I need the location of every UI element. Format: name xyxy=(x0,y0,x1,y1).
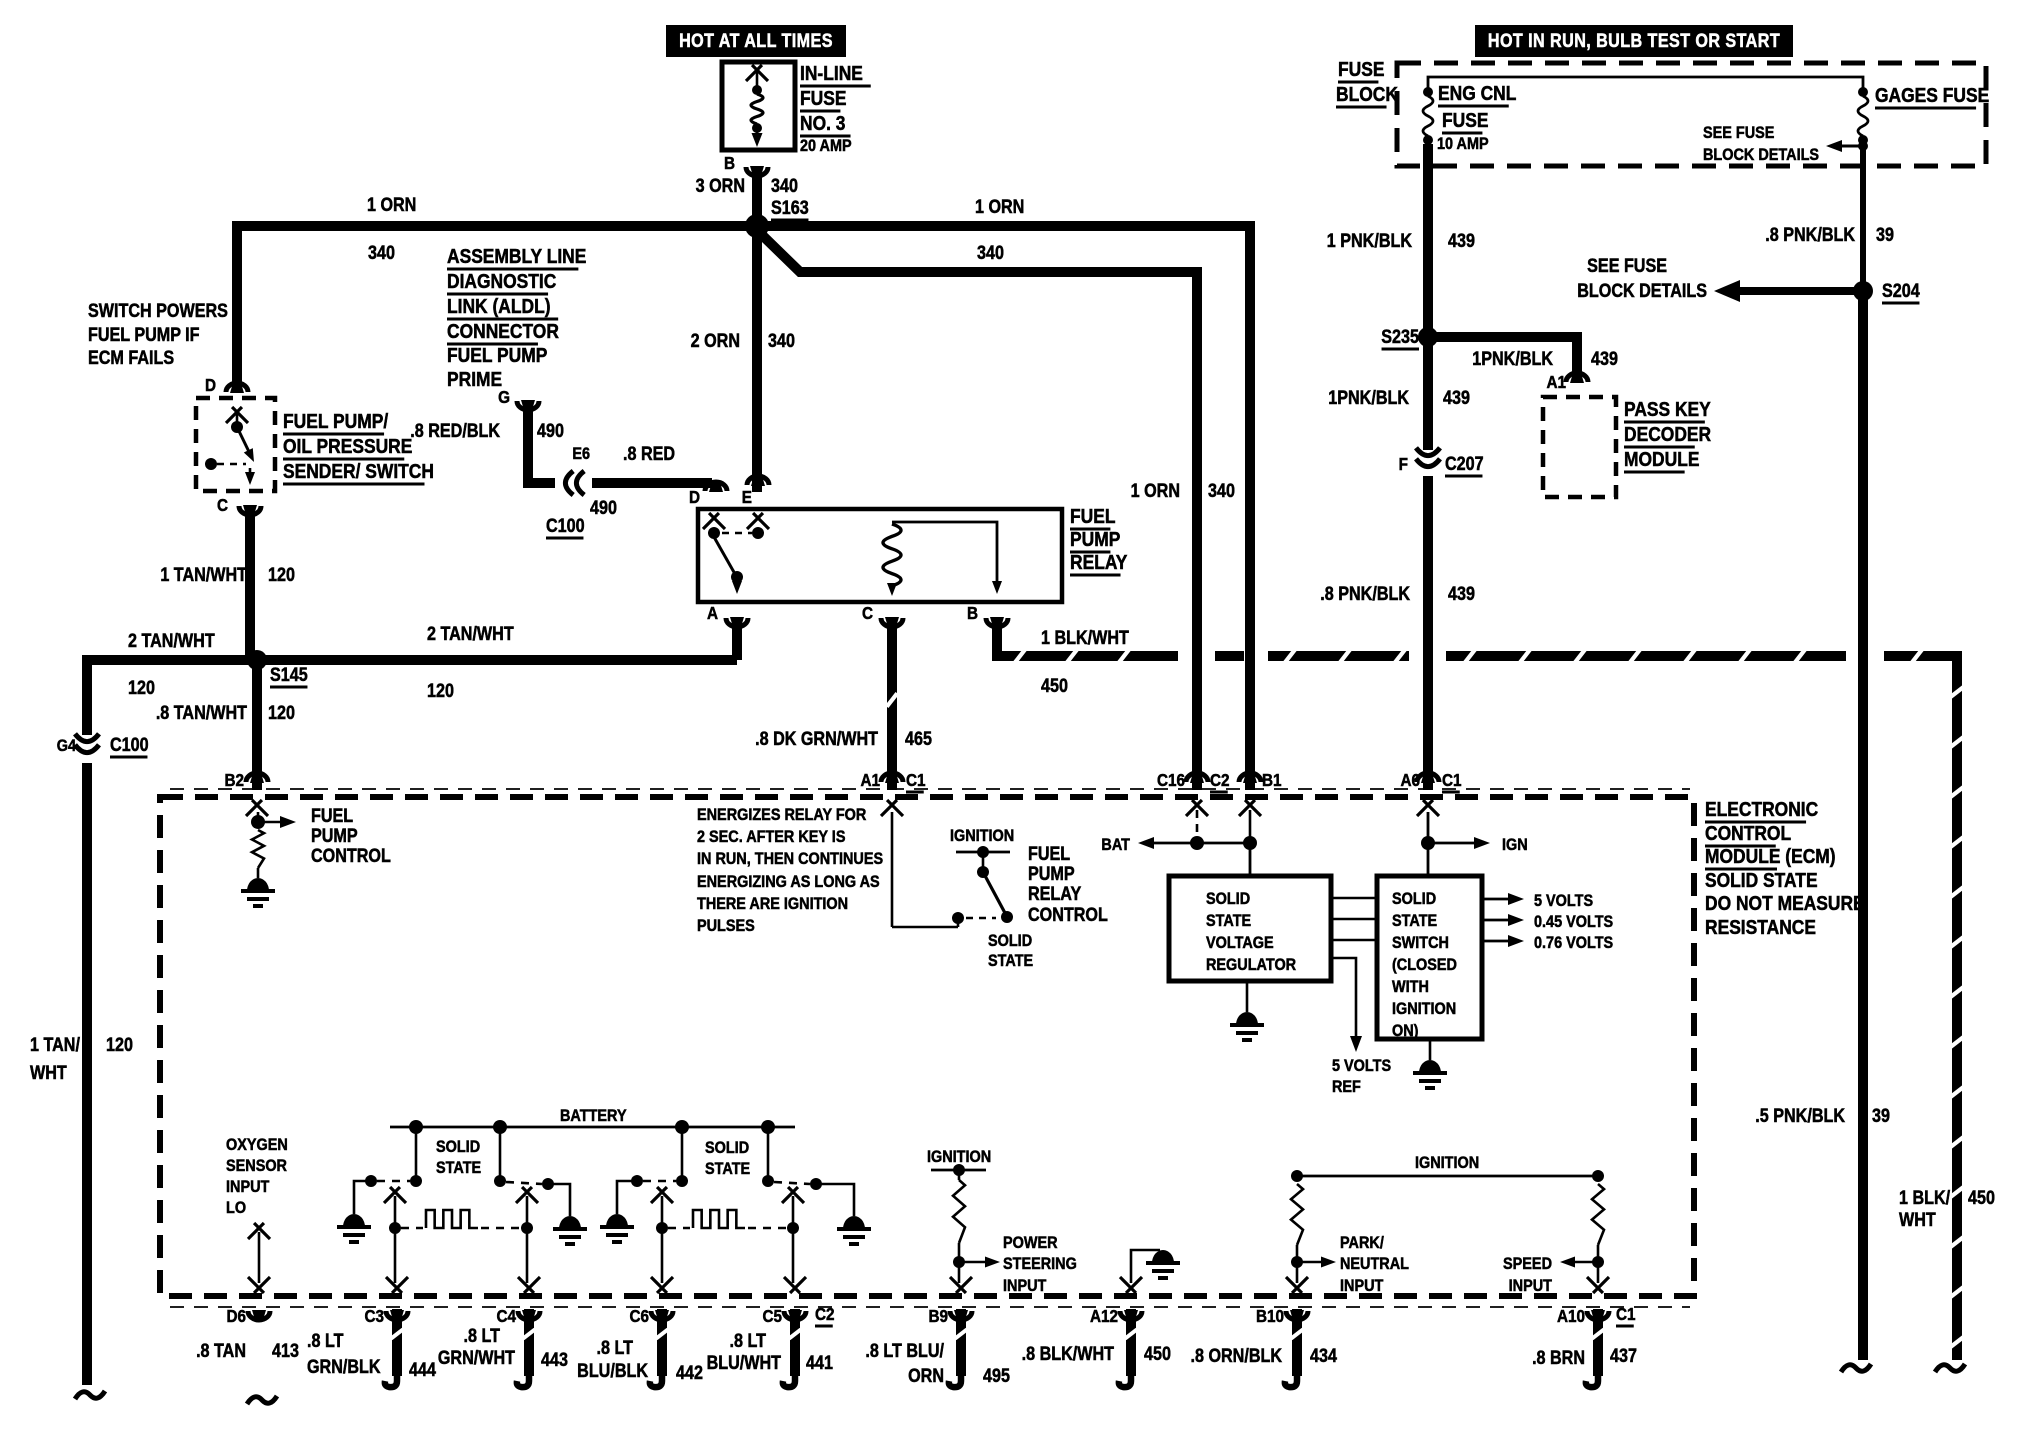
svg-text:B1: B1 xyxy=(1262,770,1282,790)
svg-text:A1: A1 xyxy=(860,770,880,790)
svg-text:G: G xyxy=(498,387,510,407)
svg-text:1 PNK/BLK: 1 PNK/BLK xyxy=(1327,230,1412,252)
svg-text:WHT: WHT xyxy=(1899,1209,1936,1231)
svg-text:STATE: STATE xyxy=(1392,912,1437,930)
svg-text:SWITCH: SWITCH xyxy=(1392,934,1449,952)
svg-text:POWER: POWER xyxy=(1003,1234,1058,1252)
svg-text:ENERGIZING AS LONG AS: ENERGIZING AS LONG AS xyxy=(697,873,880,891)
svg-text:BAT: BAT xyxy=(1101,836,1130,854)
svg-text:VOLTAGE: VOLTAGE xyxy=(1206,934,1274,952)
svg-text:B: B xyxy=(967,603,978,623)
svg-text:BLU/WHT: BLU/WHT xyxy=(707,1352,782,1374)
svg-text:CONNECTOR: CONNECTOR xyxy=(447,321,559,344)
svg-text:0.76 VOLTS: 0.76 VOLTS xyxy=(1534,934,1613,952)
svg-text:.8 PNK/BLK: .8 PNK/BLK xyxy=(1765,224,1855,246)
fuse block dashed box xyxy=(1397,63,1986,166)
svg-text:S145: S145 xyxy=(270,664,308,686)
svg-text:REF: REF xyxy=(1332,1078,1361,1096)
svg-text:WITH: WITH xyxy=(1392,978,1429,996)
wire .5 PNK/BLK 39 down to bottom xyxy=(1858,291,1868,1360)
svg-text:IGNITION: IGNITION xyxy=(1392,1000,1456,1018)
svg-text:CONTROL: CONTROL xyxy=(1705,823,1791,846)
svg-text:ELECTRONIC: ELECTRONIC xyxy=(1705,799,1818,822)
in-line fuse element xyxy=(746,65,762,81)
switch ground xyxy=(1429,1039,1432,1060)
svg-text:495: 495 xyxy=(983,1365,1010,1387)
svg-text:.8 LT: .8 LT xyxy=(730,1330,767,1352)
svg-text:PULSES: PULSES xyxy=(697,917,755,935)
svg-text:B10: B10 xyxy=(1256,1306,1284,1326)
wire 1 BLK/WHT 450 relay B xyxy=(997,617,1178,656)
svg-text:.8 TAN/WHT: .8 TAN/WHT xyxy=(156,702,247,724)
wire relay A to S145 run xyxy=(732,617,742,660)
wire .8 TAN/WHT S145 to ECM B2 xyxy=(252,660,262,790)
svg-text:.8 BRN: .8 BRN xyxy=(1532,1347,1585,1369)
splice S235 xyxy=(1418,327,1438,347)
svg-text:SOLID: SOLID xyxy=(988,932,1032,950)
svg-text:120: 120 xyxy=(106,1034,133,1056)
svg-text:413: 413 xyxy=(272,1340,299,1362)
svg-text:1 TAN/: 1 TAN/ xyxy=(30,1034,80,1056)
svg-text:(CLOSED: (CLOSED xyxy=(1392,956,1457,974)
5 volts ref output xyxy=(1331,958,1356,1042)
svg-text:.8 RED: .8 RED xyxy=(623,443,675,465)
svg-text:.8 RED/BLK: .8 RED/BLK xyxy=(410,420,500,442)
svg-text:.8 LT: .8 LT xyxy=(464,1325,501,1347)
svg-text:STEERING: STEERING xyxy=(1003,1255,1077,1273)
svg-text:SEE FUSE: SEE FUSE xyxy=(1703,124,1774,142)
svg-text:F: F xyxy=(1399,454,1408,474)
svg-text:5 VOLTS: 5 VOLTS xyxy=(1332,1057,1391,1075)
svg-text:IGNITION: IGNITION xyxy=(927,1148,991,1166)
svg-text:C3: C3 xyxy=(364,1306,384,1326)
svg-text:GRN/WHT: GRN/WHT xyxy=(438,1347,515,1369)
svg-text:BLOCK DETAILS: BLOCK DETAILS xyxy=(1577,280,1707,302)
label HOT AT ALL TIMES xyxy=(666,25,846,57)
volts outputs xyxy=(1482,898,1512,901)
svg-text:C: C xyxy=(862,603,873,623)
svg-text:120: 120 xyxy=(427,680,454,702)
ENG CNL fuse xyxy=(1423,87,1433,97)
svg-text:DO NOT MEASURE: DO NOT MEASURE xyxy=(1705,893,1865,916)
oil pressure switch contacts xyxy=(226,407,242,423)
fuel pump relay box xyxy=(698,509,1062,602)
regulator to switch links xyxy=(1331,897,1377,900)
svg-text:DIAGNOSTIC: DIAGNOSTIC xyxy=(447,271,557,294)
svg-text:D: D xyxy=(205,375,216,395)
svg-text:C2: C2 xyxy=(1210,770,1230,790)
svg-text:1 ORN: 1 ORN xyxy=(367,194,416,216)
svg-text:FUEL: FUEL xyxy=(311,805,353,827)
svg-text:C100: C100 xyxy=(546,515,585,537)
svg-text:450: 450 xyxy=(1968,1187,1995,1209)
svg-text:SOLID: SOLID xyxy=(1392,890,1436,908)
svg-text:THERE ARE IGNITION: THERE ARE IGNITION xyxy=(697,895,848,913)
svg-text:120: 120 xyxy=(268,702,295,724)
svg-text:0.45 VOLTS: 0.45 VOLTS xyxy=(1534,913,1613,931)
svg-text:.8 DK GRN/WHT: .8 DK GRN/WHT xyxy=(755,728,878,750)
wire .8 DK GRN/WHT 465 relay C to ECM A1 xyxy=(887,617,897,790)
wire fuse B to S163 xyxy=(752,166,762,226)
svg-text:1PNK/BLK: 1PNK/BLK xyxy=(1328,387,1409,409)
svg-text:SOLID: SOLID xyxy=(436,1138,480,1156)
ignition switch symbol fuel pump relay control xyxy=(891,812,894,927)
svg-text:INPUT: INPUT xyxy=(1509,1277,1553,1295)
wire 1 ORN S163 to ECM C16 xyxy=(762,235,1197,790)
svg-text:RELAY: RELAY xyxy=(1070,552,1128,575)
svg-text:434: 434 xyxy=(1310,1345,1337,1367)
label HOT IN RUN BULB TEST OR START xyxy=(1475,25,1793,57)
svg-text:IN-LINE: IN-LINE xyxy=(800,63,863,86)
svg-text:120: 120 xyxy=(128,677,155,699)
svg-text:ENG CNL: ENG CNL xyxy=(1438,83,1517,106)
svg-text:FUEL: FUEL xyxy=(1028,843,1070,865)
svg-text:FUSE: FUSE xyxy=(1338,59,1384,82)
svg-text:.8 PNK/BLK: .8 PNK/BLK xyxy=(1320,583,1410,605)
svg-text:B2: B2 xyxy=(224,770,244,790)
wire .8 RED 490 to relay D xyxy=(592,478,712,488)
svg-text:SENSOR: SENSOR xyxy=(226,1157,288,1175)
svg-text:SOLID: SOLID xyxy=(705,1139,749,1157)
svg-text:CONTROL: CONTROL xyxy=(311,845,391,867)
svg-text:1 TAN/WHT: 1 TAN/WHT xyxy=(160,564,247,586)
svg-text:PUMP: PUMP xyxy=(1028,863,1075,885)
svg-text:439: 439 xyxy=(1591,348,1618,370)
splice S204 and see fuse block details arrow xyxy=(1853,281,1873,301)
svg-text:1 BLK/WHT: 1 BLK/WHT xyxy=(1041,627,1129,649)
svg-text:STATE: STATE xyxy=(988,952,1033,970)
svg-text:INPUT: INPUT xyxy=(1003,1277,1047,1295)
splice S145 and 2 TAN/WHT run xyxy=(87,655,737,665)
wire 1 TAN/WHT switch C to S145 xyxy=(245,505,255,660)
svg-text:ECM FAILS: ECM FAILS xyxy=(88,347,174,369)
svg-text:PUMP: PUMP xyxy=(1070,529,1121,552)
svg-text:39: 39 xyxy=(1876,224,1894,246)
svg-text:IN RUN, THEN CONTINUES: IN RUN, THEN CONTINUES xyxy=(697,850,883,868)
svg-text:20 AMP: 20 AMP xyxy=(800,137,852,155)
svg-text:.8 LT: .8 LT xyxy=(307,1330,344,1352)
speed input circuit xyxy=(1592,1184,1604,1245)
svg-text:439: 439 xyxy=(1443,387,1470,409)
svg-text:465: 465 xyxy=(905,728,932,750)
svg-text:ENERGIZES RELAY FOR: ENERGIZES RELAY FOR xyxy=(697,806,867,824)
wire .8 PNK/BLK 39 gages fuse down xyxy=(1860,144,1866,291)
svg-text:A1: A1 xyxy=(1546,372,1566,392)
svg-text:A12: A12 xyxy=(1090,1306,1118,1326)
connector C100 G4 xyxy=(78,735,96,763)
svg-text:10 AMP: 10 AMP xyxy=(1437,135,1489,153)
svg-text:NEUTRAL: NEUTRAL xyxy=(1340,1255,1409,1273)
svg-text:2 SEC. AFTER KEY IS: 2 SEC. AFTER KEY IS xyxy=(697,828,845,846)
svg-text:441: 441 xyxy=(806,1352,833,1374)
svg-text:SOLID STATE: SOLID STATE xyxy=(1705,870,1818,893)
svg-text:5 VOLTS: 5 VOLTS xyxy=(1534,892,1593,910)
svg-text:490: 490 xyxy=(537,420,564,442)
svg-text:340: 340 xyxy=(977,242,1004,264)
svg-text:PASS KEY: PASS KEY xyxy=(1624,399,1711,422)
svg-text:.8 BLK/WHT: .8 BLK/WHT xyxy=(1022,1343,1115,1365)
oxygen sensor input arrow to D6 xyxy=(258,1232,261,1283)
BAT node xyxy=(1196,810,1199,843)
svg-text:DECODER: DECODER xyxy=(1624,424,1711,447)
svg-text:.8 LT: .8 LT xyxy=(597,1337,634,1359)
svg-text:SEE FUSE: SEE FUSE xyxy=(1587,255,1667,277)
svg-text:INPUT: INPUT xyxy=(1340,1277,1384,1295)
svg-text:1PNK/BLK: 1PNK/BLK xyxy=(1472,348,1553,370)
svg-text:FUSE: FUSE xyxy=(1442,110,1488,133)
svg-text:E6: E6 xyxy=(572,445,590,463)
svg-text:INPUT: INPUT xyxy=(226,1178,270,1196)
svg-text:C100: C100 xyxy=(110,734,149,756)
svg-text:FUEL PUMP IF: FUEL PUMP IF xyxy=(88,324,200,346)
relay coil to pin B link xyxy=(892,522,997,586)
relay coil xyxy=(883,524,901,586)
svg-text:GAGES FUSE: GAGES FUSE xyxy=(1875,85,1989,108)
svg-text:B: B xyxy=(724,153,735,173)
wire 2 ORN S163 to relay E xyxy=(752,226,762,492)
svg-text:444: 444 xyxy=(409,1359,436,1381)
svg-text:3 ORN: 3 ORN xyxy=(696,175,745,197)
svg-text:IGNITION: IGNITION xyxy=(950,827,1014,845)
svg-text:340: 340 xyxy=(768,330,795,352)
svg-text:STATE: STATE xyxy=(436,1159,481,1177)
GAGES fuse xyxy=(1858,87,1868,97)
svg-text:439: 439 xyxy=(1448,230,1475,252)
svg-text:PUMP: PUMP xyxy=(311,825,358,847)
wire 1 TAN/WHT left leg to bottom xyxy=(82,655,92,1385)
svg-text:490: 490 xyxy=(590,497,617,519)
svg-text:SPEED: SPEED xyxy=(1503,1255,1552,1273)
svg-text:ON): ON) xyxy=(1392,1022,1418,1040)
svg-text:A10: A10 xyxy=(1557,1306,1585,1326)
wire 1 ORN S163 to ECM B1 xyxy=(763,226,1250,790)
svg-text:D6: D6 xyxy=(226,1306,246,1326)
svg-text:C: C xyxy=(217,495,228,515)
pass key decoder module box xyxy=(1543,397,1616,497)
svg-text:D: D xyxy=(689,487,700,507)
svg-text:HOT AT ALL TIMES: HOT AT ALL TIMES xyxy=(679,30,833,52)
regulator ground xyxy=(1246,981,1249,1012)
svg-text:ASSEMBLY LINE: ASSEMBLY LINE xyxy=(447,246,586,269)
svg-text:C6: C6 xyxy=(629,1306,649,1326)
svg-text:BATTERY: BATTERY xyxy=(560,1107,627,1125)
wire 1PNK/BLK 439 to pass key A1 xyxy=(1428,337,1577,382)
svg-text:STATE: STATE xyxy=(705,1160,750,1178)
svg-text:IGNITION: IGNITION xyxy=(1415,1154,1479,1172)
svg-text:BLU/BLK: BLU/BLK xyxy=(577,1360,648,1382)
svg-text:.8 TAN: .8 TAN xyxy=(196,1340,246,1362)
svg-text:E: E xyxy=(742,487,752,507)
A12 internal ground xyxy=(1131,1250,1160,1283)
electronic control module ECM dashed box xyxy=(160,797,1694,1296)
svg-text:340: 340 xyxy=(368,242,395,264)
39 wire bottom squiggle xyxy=(1841,1364,1871,1372)
svg-text:S163: S163 xyxy=(771,197,809,219)
solid state voltage regulator box xyxy=(1169,876,1331,981)
relay switch contacts xyxy=(703,513,719,529)
svg-text:C207: C207 xyxy=(1445,453,1484,475)
svg-text:S204: S204 xyxy=(1882,280,1920,302)
svg-text:442: 442 xyxy=(676,1362,703,1384)
svg-text:SOLID: SOLID xyxy=(1206,890,1250,908)
svg-text:OIL PRESSURE: OIL PRESSURE xyxy=(283,436,412,459)
wire .8 RED/BLK 490 xyxy=(528,400,555,483)
svg-text:.8 LT BLU/: .8 LT BLU/ xyxy=(865,1340,944,1362)
wire 450 run segments xyxy=(1215,651,1244,661)
svg-text:C16: C16 xyxy=(1157,770,1185,790)
svg-text:2 ORN: 2 ORN xyxy=(691,330,740,352)
svg-text:B9: B9 xyxy=(928,1306,948,1326)
svg-text:39: 39 xyxy=(1872,1105,1890,1127)
svg-text:BLOCK: BLOCK xyxy=(1336,84,1398,107)
svg-text:SENDER/ SWITCH: SENDER/ SWITCH xyxy=(283,461,434,484)
fuel pump control driver xyxy=(257,812,260,818)
svg-text:WHT: WHT xyxy=(30,1062,67,1084)
svg-text:LO: LO xyxy=(226,1199,246,1217)
solid state switch box xyxy=(1377,876,1482,1039)
fuse block bus xyxy=(1428,77,1863,90)
svg-text:HOT IN RUN, BULB TEST OR START: HOT IN RUN, BULB TEST OR START xyxy=(1488,30,1780,52)
svg-text:C1: C1 xyxy=(1442,770,1462,790)
svg-text:439: 439 xyxy=(1448,583,1475,605)
left wire bottom squiggle xyxy=(75,1391,105,1399)
svg-text:S235: S235 xyxy=(1381,326,1419,348)
svg-text:443: 443 xyxy=(541,1349,568,1371)
svg-text:C5: C5 xyxy=(762,1306,782,1326)
svg-text:FUEL PUMP/: FUEL PUMP/ xyxy=(283,411,389,434)
svg-text:437: 437 xyxy=(1610,1345,1637,1367)
svg-text:RESISTANCE: RESISTANCE xyxy=(1705,917,1816,940)
svg-text:MODULE: MODULE xyxy=(1624,449,1699,472)
svg-text:PRIME: PRIME xyxy=(447,369,502,392)
svg-text:2 TAN/WHT: 2 TAN/WHT xyxy=(128,630,215,652)
splice S163 xyxy=(745,214,769,238)
svg-text:450: 450 xyxy=(1041,675,1068,697)
solid state heater driver 2 xyxy=(681,1127,684,1178)
svg-text:ORN: ORN xyxy=(908,1365,944,1387)
svg-text:1 BLK/: 1 BLK/ xyxy=(1899,1187,1950,1209)
svg-text:SWITCH POWERS: SWITCH POWERS xyxy=(88,300,228,322)
svg-text:GRN/BLK: GRN/BLK xyxy=(307,1356,381,1378)
wire B1 to voltage regulator xyxy=(1249,843,1252,876)
svg-text:BLOCK DETAILS: BLOCK DETAILS xyxy=(1703,146,1819,164)
solid state heater driver 1 xyxy=(415,1127,418,1178)
svg-text:STATE: STATE xyxy=(1206,912,1251,930)
svg-text:IGN: IGN xyxy=(1502,836,1528,854)
svg-text:340: 340 xyxy=(771,175,798,197)
svg-text:C1: C1 xyxy=(906,770,926,790)
svg-text:FUEL PUMP: FUEL PUMP xyxy=(447,345,548,368)
D6 squiggle xyxy=(247,1396,277,1404)
svg-text:120: 120 xyxy=(268,564,295,586)
svg-text:450: 450 xyxy=(1144,1343,1171,1365)
svg-text:RELAY: RELAY xyxy=(1028,883,1081,905)
fuel pump / oil pressure sender switch box xyxy=(196,398,275,491)
svg-text:LINK (ALDL): LINK (ALDL) xyxy=(447,296,551,319)
svg-text:FUEL: FUEL xyxy=(1070,506,1116,529)
svg-text:1 ORN: 1 ORN xyxy=(975,196,1024,218)
450 wire bottom squiggle xyxy=(1935,1364,1965,1372)
IGN node xyxy=(1427,812,1430,876)
svg-text:C4: C4 xyxy=(496,1306,516,1326)
svg-text:PARK/: PARK/ xyxy=(1340,1234,1384,1252)
svg-text:NO. 3: NO. 3 xyxy=(800,113,845,136)
svg-text:C2: C2 xyxy=(815,1304,835,1324)
svg-text:1 ORN: 1 ORN xyxy=(1131,480,1180,502)
svg-text:.8 ORN/BLK: .8 ORN/BLK xyxy=(1191,1345,1283,1367)
svg-text:.5 PNK/BLK: .5 PNK/BLK xyxy=(1755,1105,1845,1127)
svg-text:FUSE: FUSE xyxy=(800,88,846,111)
wire 1 PNK/BLK 439 ENG CNL fuse to ECM A6 xyxy=(1423,144,1433,790)
svg-text:OXYGEN: OXYGEN xyxy=(226,1136,288,1154)
svg-text:C1: C1 xyxy=(1616,1304,1636,1324)
svg-text:2 TAN/WHT: 2 TAN/WHT xyxy=(427,623,514,645)
wire 1 ORN left run xyxy=(237,226,757,390)
svg-text:A: A xyxy=(707,603,718,623)
svg-text:MODULE (ECM): MODULE (ECM) xyxy=(1705,846,1836,869)
svg-text:340: 340 xyxy=(1208,480,1235,502)
svg-text:REGULATOR: REGULATOR xyxy=(1206,956,1297,974)
in-line fuse F1 box xyxy=(722,62,795,150)
svg-text:CONTROL: CONTROL xyxy=(1028,904,1108,926)
